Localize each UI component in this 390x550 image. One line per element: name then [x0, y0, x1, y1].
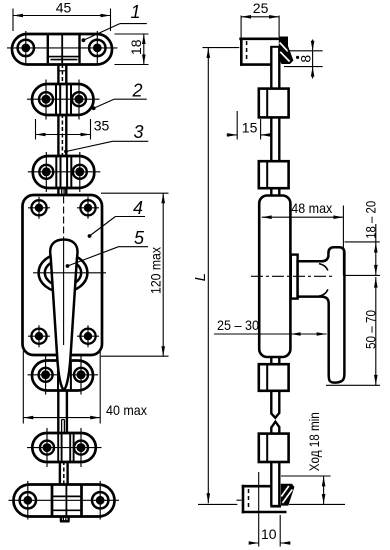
- node handle centerlines: [33, 272, 106, 274]
- bottom plate P6: [9, 481, 120, 520]
- svg-text:25 – 30: 25 – 30: [217, 317, 259, 333]
- svg-text:25: 25: [253, 0, 269, 16]
- guide bracket B4: [28, 356, 99, 395]
- clip (section, top): [279, 37, 294, 65]
- svg-text:Ход 18 min: Ход 18 min: [306, 412, 322, 471]
- wire rod segment C (above main body): [58, 188, 66, 197]
- slider block K3: [259, 364, 289, 391]
- dimension 18: [115, 34, 149, 65]
- wire rod segment E (below bracket 5): [60, 461, 68, 485]
- guide bracket B5: [27, 428, 102, 467]
- handle ring (rosette): [39, 253, 88, 292]
- svg-text:18: 18: [128, 39, 144, 55]
- svg-text:45: 45: [56, 0, 72, 16]
- dimension 48 max: [262, 206, 344, 276]
- svg-text:35: 35: [94, 118, 110, 134]
- svg-text:2: 2: [131, 80, 142, 100]
- svg-text:1: 1: [130, 2, 140, 22]
- dimension 25-30: [214, 333, 327, 335]
- guide bracket B2: [27, 80, 100, 120]
- guide bracket B3: [28, 152, 101, 192]
- wire rod bottom stub: [60, 516, 70, 521]
- slider block K1: [259, 89, 289, 118]
- wire rod segment B (between guide brackets): [58, 114, 66, 157]
- svg-text:15: 15: [242, 120, 258, 136]
- wire rod segment D (below bracket 4): [58, 390, 67, 434]
- dimension 40 max: [23, 351, 100, 424]
- main body plate P4: [23, 195, 103, 355]
- dimension 15: [227, 111, 273, 140]
- svg-text:40 max: 40 max: [106, 402, 147, 418]
- slider block K4: [259, 434, 289, 462]
- handle fillet lines: [319, 264, 328, 297]
- dimension L: [207, 48, 209, 503]
- svg-text:48 max: 48 max: [291, 200, 332, 216]
- svg-text:8: 8: [297, 55, 313, 63]
- wire rod into bottom bracket: [271, 462, 279, 506]
- dimension 18-20: [345, 224, 380, 276]
- svg-text:5: 5: [134, 228, 145, 248]
- handle grip (front view, element 5): [50, 240, 77, 390]
- main body side view: [259, 196, 290, 358]
- dimension 25: [241, 16, 279, 39]
- bottom bracket side view: [242, 485, 287, 514]
- dimension 50-70: [326, 277, 380, 385]
- node hidden rod centerline in body: [63, 197, 65, 347]
- dimension 10: [249, 472, 291, 547]
- dimension 45: [13, 9, 111, 32]
- svg-text:120 max: 120 max: [147, 247, 163, 294]
- callout 4: [90, 217, 146, 237]
- callout 2: [94, 99, 147, 108]
- callout 1: [83, 24, 146, 41]
- svg-text:3: 3: [133, 122, 143, 142]
- node centerline stub left of bottom bracket: [237, 499, 242, 501]
- wire rod taper break (upper): [271, 391, 279, 418]
- svg-text:50 – 70: 50 – 70: [362, 310, 378, 349]
- callout 3: [66, 141, 148, 151]
- dimension L extension lines: [198, 48, 345, 505]
- wire rod side segments: [271, 47, 279, 364]
- svg-text:18 – 20: 18 – 20: [362, 201, 378, 239]
- callout 5: [68, 247, 149, 266]
- clip (section, bottom): [281, 484, 295, 506]
- dimension 120 max: [101, 193, 169, 356]
- wire rod pointed piece (lower break): [271, 422, 279, 434]
- top plate P1: [7, 31, 118, 66]
- dimension Ход 18 min (travel): [281, 476, 331, 504]
- svg-text:10: 10: [261, 526, 277, 542]
- top bracket side view: [239, 38, 287, 66]
- handle grip side view: [298, 247, 345, 382]
- node handle axis centerline: [251, 275, 332, 277]
- wire rod segment A (below top plate): [58, 64, 66, 85]
- handle stem side: [291, 255, 298, 299]
- svg-text:L: L: [192, 273, 209, 281]
- slider block K2: [259, 161, 289, 188]
- dimension 8: [284, 40, 323, 79]
- dimension 35: [36, 119, 91, 140]
- svg-text:4: 4: [133, 198, 143, 218]
